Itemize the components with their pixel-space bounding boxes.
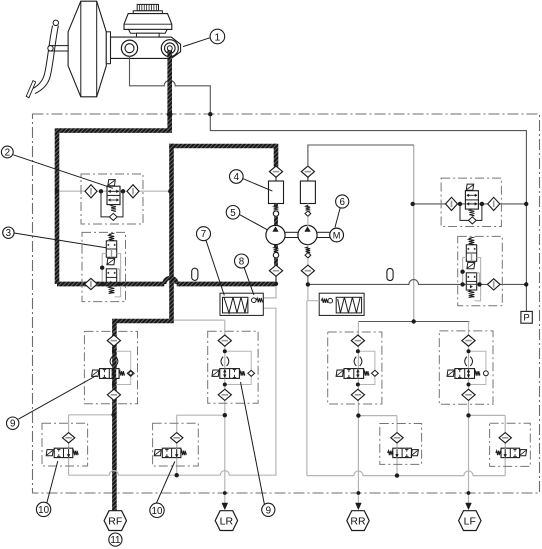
filter release RF <box>62 433 74 443</box>
callout 2 <box>1 146 13 158</box>
bypass check valve LF <box>469 351 489 384</box>
left-rear wheel supply line <box>174 320 225 503</box>
callout 9 right <box>262 503 275 516</box>
solenoid release valve 10 (LR) enclosure <box>153 423 199 466</box>
filter LR outlet <box>218 389 231 400</box>
svg-text:10: 10 <box>38 505 49 516</box>
svg-text:4: 4 <box>234 172 240 183</box>
return spring LF <box>475 371 480 376</box>
solenoid release valve 10 (RF) enclosure <box>42 423 88 466</box>
release valve feed RF <box>69 414 114 416</box>
valve 2 bypass check <box>101 191 123 220</box>
solenoid hold valve 9 (LR) enclosure <box>208 331 258 403</box>
solenoid hold valve 9 (LF) enclosure <box>439 331 493 404</box>
release valve LR inlet drop <box>176 415 178 433</box>
filter release LF <box>499 433 511 443</box>
callout 6 <box>336 195 349 208</box>
solenoid coil RR <box>336 370 343 376</box>
filter right-2 right <box>488 197 500 210</box>
callout 10 first <box>36 502 50 516</box>
valve right-2 junction dots <box>411 202 529 206</box>
valve right-3 junction dots <box>460 270 528 287</box>
thick front-right wheel supply <box>114 319 173 324</box>
filter RF inlet <box>107 335 120 346</box>
brake booster <box>68 1 110 97</box>
master cut valve right enclosure <box>441 178 501 226</box>
leader line 10 first <box>47 461 58 503</box>
secondary brake line from master cylinder <box>130 56 527 311</box>
return spring release LR <box>181 451 186 455</box>
master cylinder secondary port <box>121 40 137 56</box>
valve body release RR <box>393 448 412 457</box>
filter release LR <box>171 433 183 443</box>
filter LF inlet <box>462 335 475 346</box>
bypass check valve LR <box>225 351 255 384</box>
reservoir filter left <box>269 166 282 177</box>
valve right-2 bypass check <box>460 204 482 224</box>
motor 6 <box>330 228 344 242</box>
valve right-3 upper body <box>466 245 476 261</box>
svg-text:1: 1 <box>214 31 220 43</box>
filter RR inlet <box>351 335 364 346</box>
line through master cut valve 2 <box>59 190 170 192</box>
master cylinder primary port <box>161 40 178 57</box>
svg-text:6: 6 <box>339 197 345 208</box>
valve right-3 bottom spring <box>469 290 475 297</box>
svg-text:5: 5 <box>230 208 236 219</box>
outlet check valve right <box>305 245 311 266</box>
reservoir 4 (left chamber) <box>269 177 284 203</box>
filter 2 left <box>85 185 97 198</box>
orifice LR <box>221 357 229 366</box>
secondary supply column <box>413 145 415 322</box>
valve 3 lower body <box>106 269 116 286</box>
svg-text:LF: LF <box>464 515 476 527</box>
thick bottom horizontal line to pump outlet (with crossover hop) <box>57 278 276 284</box>
right return line with hops <box>307 471 505 476</box>
return spring RF <box>119 371 124 376</box>
svg-text:11: 11 <box>110 535 120 546</box>
right pump outlet line with hop <box>308 280 527 285</box>
callout 8 <box>235 254 249 268</box>
solenoid coil RF <box>92 370 99 376</box>
leader line 8 <box>244 268 254 295</box>
valve body release LR <box>162 448 181 457</box>
valve right-3 coil <box>467 262 475 268</box>
svg-text:8: 8 <box>239 257 245 268</box>
damper assembly (right) <box>319 293 364 315</box>
wheel port RF <box>104 511 126 531</box>
callout 1 <box>210 29 225 44</box>
callout 7 <box>197 227 211 241</box>
valve 3 side branches <box>102 254 120 297</box>
callout 3 <box>3 227 14 239</box>
inlet check valve right <box>305 204 311 227</box>
orifice LF <box>465 357 473 366</box>
leader line 7 <box>206 240 224 295</box>
booster pushrod <box>49 46 68 51</box>
orifice RR <box>354 357 362 366</box>
reservoir filter right <box>301 166 314 177</box>
valve 3 top spring <box>109 233 115 240</box>
svg-text:LR: LR <box>220 515 234 527</box>
pump outlet link to damper 8 <box>263 284 276 298</box>
return spring release RR <box>388 451 393 455</box>
primary brake line (thick) master cylinder to housing <box>167 50 172 131</box>
RR wheel supply drop <box>357 322 359 504</box>
svg-text:2: 2 <box>5 148 10 159</box>
solenoid coil release RF <box>46 450 53 456</box>
pump top line right <box>308 145 414 167</box>
return spring release LF <box>496 451 501 455</box>
leader line 4 <box>243 179 273 192</box>
return spring RR <box>364 371 369 376</box>
junction dots LF <box>467 349 471 386</box>
capsule marker right <box>387 268 393 280</box>
callout 11 <box>109 533 122 546</box>
valve right-2 coil <box>466 184 473 190</box>
valve body release RF <box>54 448 73 457</box>
solenoid hold valve 9 (RR) enclosure <box>328 332 382 404</box>
valve 2 spring <box>111 205 116 212</box>
valve 3 bottom spring <box>109 286 115 293</box>
rear-right / left-front supply line <box>358 321 469 323</box>
fluid reservoir <box>124 14 172 38</box>
junction dots RR <box>356 349 360 386</box>
release valve feed RR <box>358 415 397 417</box>
master cylinder 1 body <box>111 37 181 58</box>
outlet check valve left <box>273 245 278 266</box>
leader line 3 <box>14 233 106 248</box>
solenoid coil release LR <box>154 450 161 456</box>
reservoir (right chamber) <box>300 177 315 203</box>
filter right-2 left <box>446 197 458 210</box>
solenoid hold valve 9 (RF) enclosure <box>84 331 137 403</box>
thick left vertical line <box>55 128 60 284</box>
release valve feed LR <box>177 414 225 416</box>
solenoid release valve 10 (LF) enclosure <box>490 423 531 466</box>
right return riser <box>306 301 308 476</box>
valve body LF <box>455 369 475 379</box>
valve body RF <box>100 369 120 379</box>
outlet filter right <box>301 265 314 276</box>
svg-text:M: M <box>333 231 341 241</box>
valve 3 junction dots <box>100 266 122 287</box>
inlet check valve left <box>273 204 278 227</box>
leader line 5 <box>240 215 268 230</box>
regulator valve right enclosure <box>458 236 503 305</box>
solenoid coil release RR <box>411 450 418 456</box>
damper assembly 8 (left) <box>220 293 263 315</box>
outlet filter left <box>269 265 282 276</box>
pump 5 (left) <box>266 225 285 244</box>
wheel port LR <box>215 503 237 531</box>
svg-text:P: P <box>523 313 529 324</box>
valve right-3 filter <box>487 279 500 290</box>
right pump suction / damper link <box>308 284 319 300</box>
thick top line to pump reservoir <box>169 144 276 149</box>
svg-text:RF: RF <box>108 515 122 527</box>
LF wheel supply drop <box>468 322 470 504</box>
filter LF outlet <box>462 389 475 400</box>
filter RR outlet <box>351 389 364 400</box>
valve 3 filter <box>85 278 98 289</box>
valve body release LF <box>501 448 520 457</box>
svg-text:7: 7 <box>201 229 206 240</box>
valve body RR <box>344 369 364 379</box>
valve 2 body <box>107 186 120 204</box>
return spring release RF <box>73 451 78 455</box>
svg-text:9: 9 <box>10 419 15 430</box>
return spring LR <box>239 371 244 376</box>
pump (right) <box>298 225 317 244</box>
release valve RF outlet drop <box>68 443 70 448</box>
svg-text:RR: RR <box>350 515 366 527</box>
leader line 6 <box>335 208 340 228</box>
callout 5 <box>226 206 240 220</box>
filter RF outlet <box>107 389 120 400</box>
bypass check valve RR <box>358 351 378 384</box>
wheel port RR <box>347 503 369 531</box>
leader line 10 second <box>156 462 174 504</box>
reservoir cap <box>133 4 162 13</box>
valve right-3 lower body <box>466 273 476 290</box>
solenoid release valve 10 (RR) enclosure <box>380 424 422 465</box>
release valve LR outlet drop <box>176 443 178 448</box>
valve body LR <box>220 369 240 379</box>
valve right-3 top spring <box>469 237 475 244</box>
pressure sensor P <box>521 311 532 323</box>
leader line 9 left <box>19 376 97 420</box>
thick supply column (node) <box>169 144 174 321</box>
leader line 2 <box>13 155 113 189</box>
orifice RF <box>110 357 118 366</box>
capsule marker left <box>192 268 198 280</box>
solenoid coil LR <box>212 370 219 376</box>
leader line 9 right <box>241 382 265 504</box>
solenoid coil LF <box>447 370 454 376</box>
release valve LF outlet drop <box>504 443 506 448</box>
supply node dot right <box>412 319 416 323</box>
master cut valve 2 enclosure <box>81 174 143 224</box>
valve 3 coil <box>107 258 115 264</box>
valve right-2 body <box>465 191 478 209</box>
filter 2 right <box>127 185 139 198</box>
junction dots RF <box>112 349 116 386</box>
brake pedal <box>26 20 58 98</box>
callout 4 <box>230 170 244 184</box>
svg-text:3: 3 <box>6 228 12 239</box>
line through master cut valve (right) <box>414 203 527 205</box>
release valve RR outlet drop <box>396 443 398 448</box>
callout 9 left <box>7 417 19 430</box>
line junction dots <box>111 111 470 495</box>
svg-text:9: 9 <box>266 505 271 516</box>
leader line 1 <box>183 38 210 47</box>
callout 10 second <box>150 503 164 517</box>
junction dots LR <box>223 349 227 386</box>
thick drop to reservoir filter <box>274 144 279 167</box>
release valve feed LF <box>469 414 506 416</box>
bypass check valve RF <box>114 351 134 384</box>
filter LR inlet <box>218 335 231 346</box>
regulator valve 3 enclosure <box>82 232 126 301</box>
svg-text:10: 10 <box>152 506 163 517</box>
valve 2 junction dots <box>55 189 173 194</box>
ABS actuator housing border <box>33 114 540 493</box>
left return line with hops <box>69 308 276 475</box>
solenoid coil release LF <box>520 450 527 456</box>
valve 2 coil <box>108 180 115 186</box>
wheel port LF <box>459 503 481 531</box>
thick line corner to left side <box>57 128 172 133</box>
pump drive shaft <box>285 232 330 237</box>
release valve RF inlet drop <box>68 415 70 433</box>
valve 3 upper body <box>106 241 116 257</box>
valve right-3 side branches <box>463 258 481 301</box>
valve right-2 spring <box>469 209 474 216</box>
filter release RR <box>391 433 403 443</box>
